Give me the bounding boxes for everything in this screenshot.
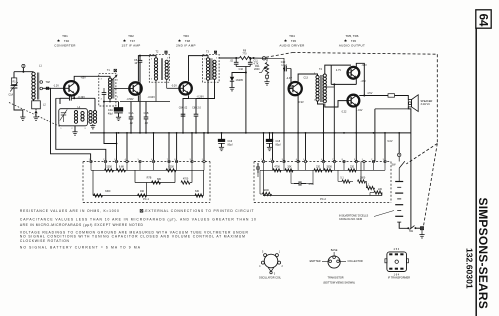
resistor R3 1500 (105, 169, 114, 172)
wire emitter to feedback coil (74, 97, 95, 99)
svg-text:TR2: TR2 (128, 34, 134, 38)
svg-text:4.7V: 4.7V (336, 69, 341, 72)
svg-text:3.2Ω VC: 3.2Ω VC (421, 103, 431, 106)
svg-text:4700: 4700 (274, 165, 280, 168)
wire pot to ground (266, 74, 268, 76)
wire osc rail down (56, 98, 106, 160)
svg-text:C6A: C6A (129, 112, 134, 115)
svg-text:TR5, TR6: TR5, TR6 (346, 34, 359, 38)
wire T2 primary bottom (155, 80, 157, 101)
wire TR1 emitter (73, 95, 75, 98)
svg-text:-47V: -47V (361, 80, 367, 83)
svg-text:0.22: 0.22 (342, 110, 347, 113)
diode M1 1N295 (230, 77, 234, 81)
svg-text:C1A: C1A (9, 94, 14, 97)
transformer T2 (149, 54, 169, 82)
wire battery to bottom switch (399, 222, 408, 228)
svg-text:AUDIO OUTPUT: AUDIO OUTPUT (339, 43, 365, 47)
transistor TR2 (129, 82, 141, 94)
ground diode (229, 87, 234, 89)
svg-text:BASE: BASE (331, 249, 338, 252)
wire L5 bottom to ground (92, 124, 94, 125)
svg-text:TR1: TR1 (62, 34, 68, 38)
wire TR3 collector to T3 (189, 56, 209, 82)
transistor TR5 (348, 67, 360, 79)
capacitor C8B (183, 98, 196, 100)
page divider line (475, 28, 477, 316)
wire R1 top (13, 72, 15, 78)
capacitor C18 electrolytic (269, 133, 271, 139)
oscillator coil L4 winding A (74, 111, 77, 114)
coil tap terminal 2 (40, 87, 43, 90)
svg-text:PC-2: PC-2 (320, 198, 326, 201)
svg-text:C13: C13 (304, 77, 309, 80)
wire pot wiper to C12 (259, 72, 262, 74)
PC-1 ground rail (93, 195, 204, 197)
svg-text:EMITTER: EMITTER (310, 260, 321, 263)
resistor R17 3300 (324, 169, 332, 172)
switch linkage dash line top (266, 53, 293, 58)
ground C16 (219, 146, 224, 148)
on-off switch SW1 (398, 157, 400, 162)
wire coil to rod (33, 99, 35, 100)
svg-text:C10: C10 (239, 68, 244, 71)
resistor R20 5.1 (342, 180, 350, 183)
wire drops to PC-1 (116, 133, 118, 160)
svg-text:80µf: 80µf (228, 143, 233, 146)
switch linkage to SW2 (424, 144, 438, 227)
svg-text:3300: 3300 (326, 165, 332, 168)
svg-text:OSCILLATOR COIL: OSCILLATOR COIL (259, 276, 282, 279)
ground oscillator (72, 131, 77, 133)
svg-text:20K: 20K (287, 165, 292, 168)
antenna coil core (37, 73, 39, 100)
transistor TR3 (179, 82, 191, 94)
tuning capacitor C1A (13, 85, 15, 86)
capacitor C8A (182, 99, 184, 115)
wire bus to battery (398, 133, 400, 153)
wire main bus (90, 132, 411, 134)
resistor R10 490 (138, 194, 147, 197)
svg-text:(BOTTOM VIEWS SHOWN): (BOTTOM VIEWS SHOWN) (323, 282, 355, 285)
wire TR2 emitter (137, 96, 139, 102)
wire T3 top to R9 (219, 57, 240, 59)
resistor R4 6.8K (117, 169, 126, 172)
svg-text:4700: 4700 (183, 178, 189, 181)
wire TR6 collector to output (359, 95, 388, 97)
svg-text:RESISTANCE VALUES ARE IN OHMS,: RESISTANCE VALUES ARE IN OHMS, K=1000 (20, 209, 119, 213)
svg-text:SIMPSONS-SEARS: SIMPSONS-SEARS (476, 198, 490, 310)
svg-text:CAPACITANCE VALUES LESS THAN 1: CAPACITANCE VALUES LESS THAN 10 ARE IN M… (20, 218, 256, 222)
oscillator assembly box (59, 109, 88, 126)
svg-text:CONVERTER: CONVERTER (54, 43, 76, 47)
ferrite rod (32, 101, 41, 109)
resistor R23 220 (374, 191, 382, 194)
wire R18 to speaker (395, 96, 409, 100)
svg-text:TAP: TAP (46, 81, 51, 84)
ground volume pot (264, 81, 269, 83)
resistor R19 220 (348, 169, 356, 172)
svg-text:9.0V: 9.0V (387, 140, 392, 143)
T1 tuning arrow (112, 75, 118, 81)
coil tap terminal 1 (40, 81, 43, 84)
capacitor C11 (249, 58, 251, 62)
svg-text:ARE IN MICRO-MICROFARADS (µµf): ARE IN MICRO-MICROFARADS (µµf) EXCEPT WH… (20, 223, 144, 227)
transistor TR1 (64, 81, 78, 95)
svg-text:3300: 3300 (105, 190, 111, 193)
resistor R5 8200 (166, 169, 176, 172)
svg-text:SW: SW (391, 163, 396, 166)
svg-text:TR4: TR4 (289, 34, 295, 38)
svg-text:-0.2V: -0.2V (171, 84, 177, 87)
svg-text:-65V: -65V (81, 77, 87, 80)
wire TR1 base rail down (51, 88, 91, 160)
resistor R21 1800 (358, 180, 366, 183)
PC-2 vertical links (338, 180, 342, 182)
antenna coil L1 primary (32, 72, 35, 75)
wire network to bus (245, 67, 247, 133)
svg-text:.02: .02 (129, 122, 133, 125)
transistor TR4 (289, 82, 302, 95)
svg-text:80µf: 80µf (276, 143, 281, 146)
emitter rail TR2 (120, 101, 170, 103)
ground battery (419, 234, 424, 236)
PC-2 internal rail (260, 169, 385, 171)
wire T1 secondary to TR2 base (114, 88, 128, 90)
svg-text:SW: SW (409, 230, 414, 233)
resistor R8 4700 (181, 181, 190, 184)
svg-text:TRANSISTOR: TRANSISTOR (328, 276, 344, 279)
wire TR4 collector to T4 (298, 74, 317, 82)
svg-text:C6B: C6B (144, 112, 149, 115)
resistor R7 680 (152, 181, 161, 184)
svg-text:630: 630 (195, 190, 200, 193)
battery terminal (398, 153, 401, 156)
svg-text:1.0µf: 1.0µf (281, 64, 287, 67)
wire T4 primary bottom down (318, 101, 324, 161)
rod arrow (34, 110, 37, 113)
wire T3 primary bottom to bus (207, 80, 209, 133)
chassis boundary top (293, 53, 438, 55)
feedback coil L5 (89, 111, 92, 114)
PC-2 ground rail (263, 195, 382, 197)
svg-text:T48: T48 (185, 39, 191, 43)
svg-text:1000: 1000 (263, 189, 269, 192)
svg-text:0.9V: 0.9V (299, 101, 304, 104)
svg-text:490: 490 (140, 190, 145, 193)
wire network to diode (232, 73, 246, 77)
oscillator coil bottom view (264, 254, 278, 268)
wire speaker return (408, 107, 411, 228)
wire T1 coil bottom (109, 99, 111, 102)
wire bus link (104, 133, 117, 144)
svg-text:1500: 1500 (106, 165, 112, 168)
svg-text:AUDIO DRIVER: AUDIO DRIVER (279, 43, 305, 47)
svg-text:1ST IF AMP: 1ST IF AMP (121, 43, 140, 47)
wire switch to battery (398, 168, 400, 181)
wire C10 C11 join (236, 66, 250, 68)
svg-text:NO SIGNAL BATTERY CURRENT = 6: NO SIGNAL BATTERY CURRENT = 6 MA TO 9 MA (20, 246, 141, 250)
svg-text:6.8K: 6.8K (119, 165, 124, 168)
transformer T3 (203, 54, 220, 82)
resistor R1 box (11, 78, 16, 85)
capacitor C10 (235, 58, 237, 62)
resistor R15 20K (285, 169, 293, 172)
svg-text:C8A .02: C8A .02 (179, 106, 188, 109)
svg-text:T45: T45 (351, 39, 357, 43)
volume pot R11 (266, 58, 268, 61)
svg-text:220: 220 (378, 188, 383, 191)
svg-text:PC-1: PC-1 (143, 198, 149, 201)
transformer T1 (99, 74, 116, 106)
svg-text:2 5 3: 2 5 3 (394, 248, 400, 251)
capacitor C3 in T1 (103, 88, 105, 93)
svg-text:T47: T47 (130, 39, 136, 43)
resistor R12 630 (195, 194, 203, 197)
svg-text:-4.3V: -4.3V (286, 77, 292, 80)
bus junction dots (118, 132, 120, 134)
resistor R14 4700 (273, 169, 281, 172)
wire osc box to ground (74, 126, 76, 132)
ground antenna (20, 116, 25, 118)
svg-text:COLLECTOR: COLLECTOR (348, 260, 363, 263)
resistor R22 5.1 (367, 186, 375, 189)
svg-text:.03: .03 (144, 122, 148, 125)
capacitor C5 (139, 56, 141, 61)
capacitor C6A (130, 102, 132, 118)
PC-1 mid rail (135, 182, 175, 184)
capacitor C19 4700 (294, 183, 299, 185)
resistor R6 3300 (94, 194, 103, 197)
wire TR6 emitter down (355, 107, 357, 162)
wire to ground (421, 230, 423, 235)
chassis boundary right (436, 54, 438, 143)
svg-text:40µf: 40µf (108, 113, 113, 116)
wire C12 to TR4 base (288, 69, 291, 89)
wire TR2 collector to T2 (138, 56, 156, 82)
PC-1 terminals (90, 160, 92, 162)
svg-text:CATALOG NO. 6445: CATALOG NO. 6445 (339, 218, 363, 221)
PC-1 internal rail (91, 169, 204, 171)
external connection battery (421, 227, 424, 230)
oscillator coil pin 3 (268, 267, 271, 271)
ground C4A (116, 116, 121, 118)
PC-2 board outline (254, 161, 391, 163)
svg-text:132.60301: 132.60301 (464, 248, 474, 289)
resistor R9 (240, 56, 252, 59)
svg-text:NO SIGNAL CONDITIONS WITH TUNI: NO SIGNAL CONDITIONS WITH TUNING CAPACIT… (20, 235, 245, 239)
svg-text:64: 64 (477, 14, 489, 27)
ground rod (33, 116, 38, 118)
resistor R13 1000 (263, 192, 272, 195)
svg-text:TR3: TR3 (183, 34, 189, 38)
svg-text:770: 770 (242, 53, 247, 56)
capacitor C17 (257, 163, 259, 167)
oscillator tuning capacitor C1B (61, 112, 66, 114)
wire T4 center tap down (325, 86, 335, 88)
speaker (408, 100, 411, 107)
svg-text:220: 220 (350, 165, 355, 168)
wire TR1 collector to T1 (74, 76, 110, 81)
svg-text:IF TRANSFORMER: IF TRANSFORMER (388, 276, 410, 279)
wire C5 down to bus (139, 67, 141, 133)
wire TR5 collector (356, 63, 364, 95)
wire volume top to C12 (267, 58, 284, 68)
IF transformer bottom view (387, 252, 407, 272)
wire speaker branch down (375, 108, 408, 110)
capacitor C12 electrolytic (283, 68, 286, 70)
svg-text:8200: 8200 (168, 165, 174, 168)
wire antenna terminal to L1 top (22, 68, 24, 72)
svg-text:T45: T45 (291, 39, 297, 43)
oscillator coil L4 winding B (81, 112, 84, 115)
wire TR5 input loop (331, 64, 351, 66)
page number box (476, 10, 491, 28)
svg-text:-1.2V: -1.2V (53, 85, 59, 88)
PC-1 board outline (83, 161, 210, 163)
svg-text:-.01V: -.01V (357, 109, 363, 112)
PC-2 terminals (262, 160, 264, 162)
svg-text:VOLTAGE READINGS TO COMMON GRO: VOLTAGE READINGS TO COMMON GROUND ARE ME… (20, 230, 249, 234)
wire TR4 emitter down (297, 96, 299, 162)
capacitor C2 (67, 97, 70, 99)
antenna terminal E1 (22, 64, 25, 67)
svg-text:C8B 2.0: C8B 2.0 (192, 106, 201, 109)
wire C2 to osc (60, 97, 67, 99)
wire tap to TR1 base (43, 87, 65, 89)
gang dash-dot line (9, 103, 61, 128)
svg-text:2000: 2000 (254, 68, 260, 71)
svg-text:-0.56V: -0.56V (126, 98, 133, 101)
battery B1 (395, 181, 403, 183)
wire drops to PC-2 (263, 133, 265, 160)
wire T4 secondary bottom to TR6 base (325, 101, 348, 107)
resistor R16 220 (314, 169, 322, 172)
capacitor C4A electrolytic (118, 102, 120, 108)
svg-text:220: 220 (316, 165, 321, 168)
transformer T4 (316, 76, 319, 79)
wire TR5 emitter down (355, 79, 357, 85)
wire T2 secondary to TR3 base (166, 79, 168, 88)
svg-text:T46: T46 (64, 39, 70, 43)
transistor TR6 (348, 95, 360, 107)
wire R9 to volume terminal (252, 57, 263, 59)
wire TR3 emitter down (183, 95, 189, 133)
svg-text:R7B: R7B (147, 177, 152, 180)
svg-text:4.5V: 4.5V (367, 92, 372, 95)
svg-text:-EXTERNAL CONNECTIONS TO PRINT: -EXTERNAL CONNECTIONS TO PRINTED CIRCUIT (144, 209, 254, 213)
wire T1 cap down to bus (103, 102, 105, 133)
capacitor C16 electrolytic (221, 133, 223, 139)
svg-text:2ND IF AMP: 2ND IF AMP (176, 43, 196, 47)
wire C12 node down to PC2 (283, 69, 285, 162)
svg-text:-0.64V: -0.64V (148, 96, 156, 99)
svg-text:1N295: 1N295 (236, 79, 244, 82)
svg-text:CLOCKWISE ROTATION: CLOCKWISE ROTATION (20, 239, 70, 243)
wire T4 secondary top to TR5 base (325, 65, 331, 74)
svg-text:680: 680 (157, 178, 162, 181)
bottom switch SW2 (410, 226, 415, 230)
ground C18 (267, 146, 272, 148)
wire switch to external connection (417, 227, 421, 229)
wire T3 secondary bottom (196, 79, 215, 98)
external connection terminal volume (262, 57, 265, 60)
switch linkage to SW1 (406, 144, 437, 164)
transistor bottom view (328, 256, 340, 268)
capacitor C6B (145, 102, 147, 118)
wire C1A to ground (14, 92, 23, 117)
resistor R18 box (388, 94, 395, 98)
